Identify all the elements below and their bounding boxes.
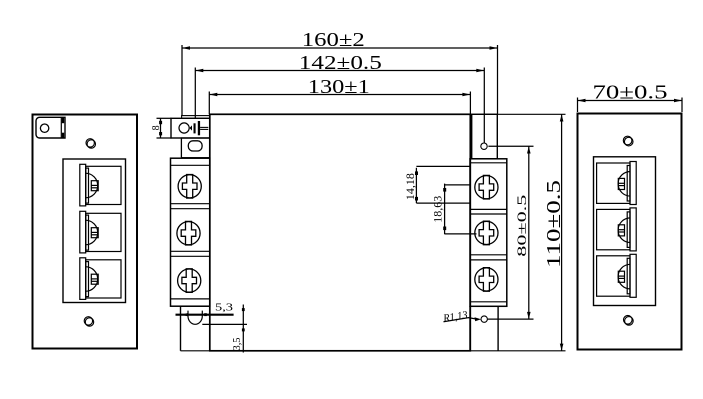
svg-text:130±1: 130±1 [308,76,370,98]
right view terminal cell 2 [597,208,637,251]
left screw 3 [178,269,201,293]
left panel mounting tab [36,117,65,138]
right panel terminal opening [594,157,656,306]
right top tab [472,114,498,159]
left mounting plate [182,116,210,119]
left panel outline [33,115,138,349]
dim 110±0.5 [560,114,564,350]
svg-text:142±0.5: 142±0.5 [299,52,382,74]
dim 5,3 [176,313,234,317]
svg-text:80±0.5: 80±0.5 [514,195,529,257]
keyhole slot lines [200,126,208,128]
right screw 3 [475,268,498,292]
oval hole [188,141,202,151]
svg-text:R1,13: R1,13 [442,309,469,325]
dim 80±0.5 [488,146,534,319]
left view terminal cell 3 [80,258,121,300]
right screw 2 [475,221,498,245]
right terminal strip [470,159,507,306]
right strip band lines [470,163,507,302]
bottom slot (U shape) [188,311,202,325]
left panel bottom hole [85,318,93,326]
filter body [210,114,471,350]
right view terminal cell 1 [597,162,637,205]
tab hole [40,124,48,132]
left oval-hole block [181,138,209,158]
left screw 1 [178,175,201,199]
left view terminal cell 1 [80,164,121,206]
right panel bottom hole [625,317,634,326]
leader R1,13 [444,317,482,322]
keyhole bar 2 [198,121,200,135]
keyhole wedge [190,125,193,130]
dim 70±0.5 [578,98,683,113]
left bottom tab [181,306,210,351]
left view terminal cell 2 [80,211,121,253]
svg-text:5,3: 5,3 [215,303,233,314]
right screw 1 [475,175,498,199]
tab divider [60,118,62,138]
right view terminal cell 3 [597,254,637,297]
dim 130±1 [209,92,470,115]
left panel terminal opening [63,159,126,303]
left panel top hole [87,140,95,148]
svg-text:8: 8 [151,125,162,130]
right panel top hole [624,137,633,146]
left terminal strip [171,158,210,306]
svg-text:3,5: 3,5 [232,338,243,351]
svg-text:110±0.5: 110±0.5 [543,180,565,268]
dim 14,18 [415,166,471,203]
dim 3,5 [202,305,247,353]
svg-text:18,63: 18,63 [433,196,445,223]
svg-text:160±2: 160±2 [302,29,365,51]
right tab hole [481,143,487,149]
tab divider tick top [62,118,64,123]
dim 18,63 [443,184,476,235]
tab divider tick bottom [62,133,64,138]
right panel outline [578,114,682,350]
left strip band lines [171,165,210,299]
keyhole circle [179,123,189,133]
dim 8 (tab height) [157,118,172,138]
dim 160±2 [182,45,498,116]
keyhole bar 1 [194,123,196,133]
dim 142±0.5 [195,68,484,143]
body top edge extension to 110 dim [470,113,565,115]
body bottom edge extension [181,350,566,352]
right bottom tab [470,306,498,351]
svg-text:70±0.5: 70±0.5 [593,82,668,104]
right bottom hole [481,316,487,322]
left screw 2 [177,221,200,245]
svg-text:14,18: 14,18 [405,173,417,200]
left keyhole tab [171,118,210,138]
